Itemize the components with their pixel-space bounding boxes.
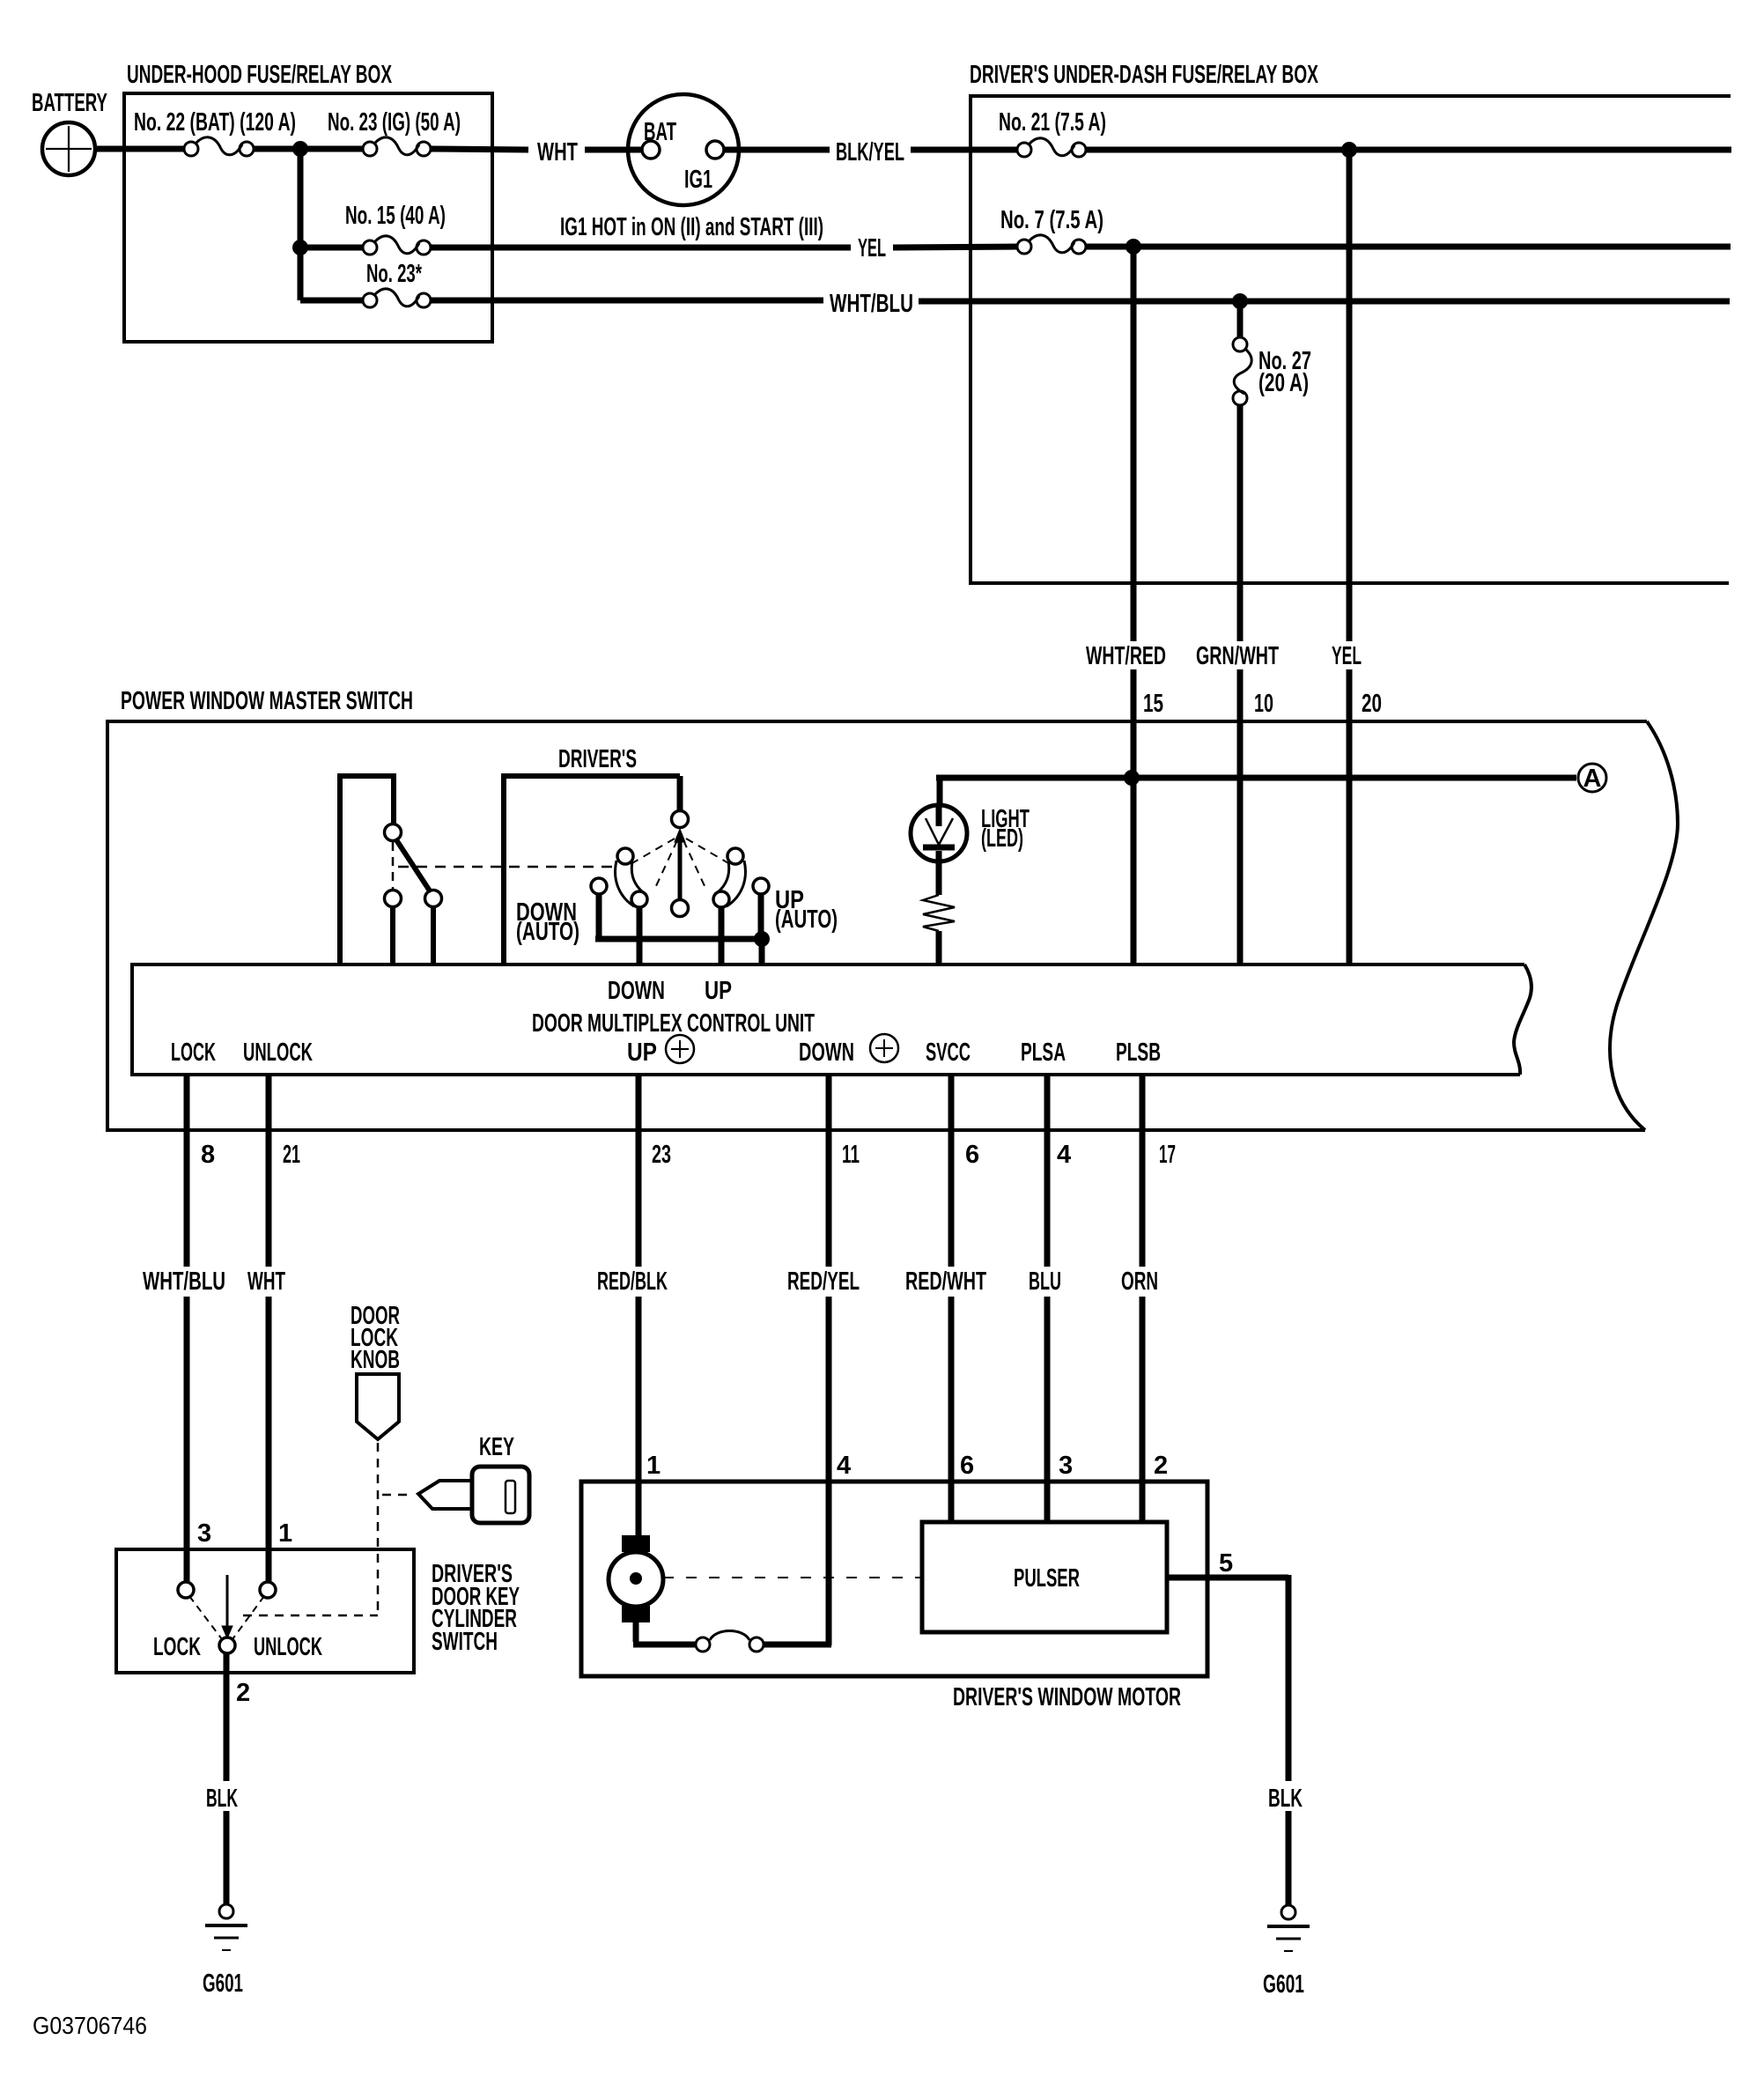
svg-text:YEL: YEL xyxy=(1332,642,1362,670)
svg-text:No. 15 (40 A): No. 15 (40 A) xyxy=(345,202,446,230)
svg-text:SVCC: SVCC xyxy=(926,1038,971,1067)
svg-text:DRIVER'S: DRIVER'S xyxy=(558,745,637,773)
svg-text:WHT/BLU: WHT/BLU xyxy=(143,1268,225,1296)
svg-text:21: 21 xyxy=(283,1141,300,1169)
svg-text:BLK/YEL: BLK/YEL xyxy=(836,138,904,166)
svg-text:UNLOCK: UNLOCK xyxy=(254,1633,322,1661)
svg-text:WHT/BLU: WHT/BLU xyxy=(830,290,913,318)
svg-text:RED/YEL: RED/YEL xyxy=(787,1268,860,1296)
svg-text:6: 6 xyxy=(960,1452,974,1480)
svg-text:1: 1 xyxy=(646,1452,661,1480)
svg-text:11: 11 xyxy=(842,1141,860,1169)
svg-text:No. 23 (IG) (50 A): No. 23 (IG) (50 A) xyxy=(328,108,461,137)
svg-text:G03706746: G03706746 xyxy=(33,2012,147,2039)
svg-text:4: 4 xyxy=(837,1452,851,1480)
svg-text:PLSA: PLSA xyxy=(1021,1038,1066,1067)
svg-text:RED/BLK: RED/BLK xyxy=(597,1268,668,1296)
svg-text:No. 22 (BAT) (120 A): No. 22 (BAT) (120 A) xyxy=(134,108,296,137)
svg-text:ORN: ORN xyxy=(1121,1268,1158,1296)
svg-text:KNOB: KNOB xyxy=(351,1346,400,1374)
svg-text:A: A xyxy=(1583,765,1602,793)
svg-text:G601: G601 xyxy=(1263,1970,1304,1999)
svg-text:DOWN: DOWN xyxy=(608,977,665,1005)
svg-text:(AUTO): (AUTO) xyxy=(775,905,838,934)
svg-text:RED/WHT: RED/WHT xyxy=(905,1268,986,1296)
svg-text:BLU: BLU xyxy=(1029,1268,1061,1296)
svg-text:BATTERY: BATTERY xyxy=(32,89,107,117)
svg-text:8: 8 xyxy=(201,1141,215,1169)
svg-text:(20 A): (20 A) xyxy=(1258,369,1309,397)
svg-text:15: 15 xyxy=(1143,690,1163,718)
svg-text:UNDER-HOOD FUSE/RELAY BOX: UNDER-HOOD FUSE/RELAY BOX xyxy=(127,61,392,89)
svg-text:G601: G601 xyxy=(203,1970,243,1998)
svg-text:3: 3 xyxy=(197,1519,211,1548)
svg-text:3: 3 xyxy=(1059,1452,1073,1480)
svg-text:UNLOCK: UNLOCK xyxy=(243,1038,313,1067)
svg-text:UP: UP xyxy=(705,977,732,1005)
svg-text:WHT/RED: WHT/RED xyxy=(1086,642,1166,670)
svg-text:BLK: BLK xyxy=(1268,1785,1303,1813)
svg-text:GRN/WHT: GRN/WHT xyxy=(1196,642,1279,670)
svg-text:UP: UP xyxy=(627,1038,657,1067)
svg-text:23: 23 xyxy=(652,1141,671,1169)
svg-text:No. 21 (7.5 A): No. 21 (7.5 A) xyxy=(999,108,1106,137)
svg-text:2: 2 xyxy=(1154,1452,1168,1480)
svg-text:6: 6 xyxy=(965,1141,979,1169)
svg-text:DRIVER'S WINDOW MOTOR: DRIVER'S WINDOW MOTOR xyxy=(953,1683,1181,1711)
svg-text:BAT: BAT xyxy=(644,118,676,146)
svg-text:(AUTO): (AUTO) xyxy=(516,918,579,946)
svg-text:WHT: WHT xyxy=(537,138,578,166)
svg-text:5: 5 xyxy=(1219,1549,1233,1578)
svg-text:(LED): (LED) xyxy=(981,824,1023,853)
svg-text:LOCK: LOCK xyxy=(153,1633,201,1661)
svg-text:KEY: KEY xyxy=(479,1433,514,1461)
svg-text:DOOR MULTIPLEX CONTROL UNIT: DOOR MULTIPLEX CONTROL UNIT xyxy=(532,1009,815,1038)
svg-text:No. 7 (7.5 A): No. 7 (7.5 A) xyxy=(1000,206,1103,234)
svg-text:4: 4 xyxy=(1057,1141,1071,1169)
svg-text:PULSER: PULSER xyxy=(1014,1564,1080,1593)
svg-text:10: 10 xyxy=(1254,690,1273,718)
svg-text:IG1: IG1 xyxy=(684,166,712,194)
svg-text:SWITCH: SWITCH xyxy=(432,1628,498,1656)
svg-text:WHT: WHT xyxy=(247,1268,285,1296)
svg-text:YEL: YEL xyxy=(858,234,886,262)
svg-text:POWER WINDOW MASTER SWITCH: POWER WINDOW MASTER SWITCH xyxy=(121,687,413,715)
svg-text:20: 20 xyxy=(1362,690,1382,718)
svg-text:2: 2 xyxy=(236,1679,250,1707)
svg-text:IG1 HOT in ON (II) and START (: IG1 HOT in ON (II) and START (III) xyxy=(560,213,823,241)
svg-text:BLK: BLK xyxy=(206,1785,238,1813)
svg-text:DRIVER'S UNDER-DASH FUSE/RELAY: DRIVER'S UNDER-DASH FUSE/RELAY BOX xyxy=(970,61,1318,89)
svg-text:1: 1 xyxy=(278,1519,292,1548)
svg-text:17: 17 xyxy=(1159,1141,1176,1169)
svg-text:LOCK: LOCK xyxy=(171,1038,216,1067)
svg-text:No. 23*: No. 23* xyxy=(366,260,422,288)
svg-text:PLSB: PLSB xyxy=(1116,1038,1161,1067)
svg-text:DOWN: DOWN xyxy=(799,1038,854,1067)
